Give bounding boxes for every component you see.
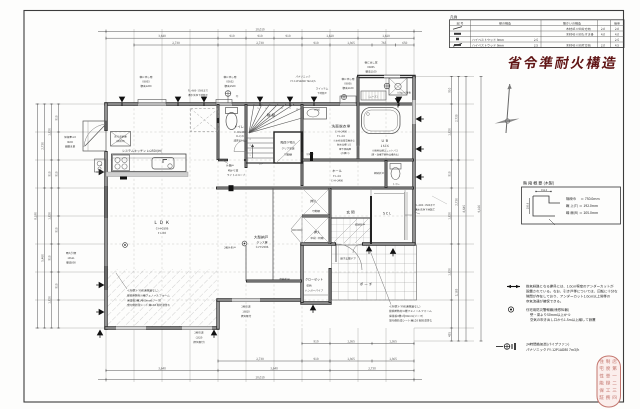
- svg-text:2枚片引戸: 2枚片引戸: [224, 246, 236, 250]
- svg-text:保温板3種1号60mm(ジーマ): 保温板3種1号60mm(ジーマ): [389, 314, 423, 318]
- svg-text:ハンガーパイプ: ハンガーパイプ: [305, 288, 324, 292]
- svg-text:910: 910: [55, 227, 59, 232]
- svg-text:度: 度: [606, 366, 611, 372]
- svg-text:910: 910: [230, 34, 235, 38]
- svg-text:階段巾 ＝ 750.0mm: 階段巾 ＝ 750.0mm: [566, 196, 600, 201]
- svg-text:2,730: 2,730: [455, 114, 459, 122]
- svg-text:(1620: (1620: [196, 335, 203, 339]
- svg-text:910: 910: [448, 171, 452, 176]
- svg-text:段差50-1/2: 段差50-1/2: [234, 139, 247, 143]
- extension lines bottom: [106, 328, 414, 382]
- svg-text:06003: 06003: [142, 80, 150, 84]
- svg-text:1,820: 1,820: [326, 34, 334, 38]
- svg-text:F L±0: F L±0: [158, 231, 167, 235]
- svg-text:腰高1100: 腰高1100: [343, 86, 355, 90]
- svg-text:1,820: 1,820: [448, 212, 452, 220]
- top dimension row 3: [134, 44, 414, 46]
- laundry window top-right: [384, 75, 400, 77]
- svg-text:910: 910: [48, 171, 52, 176]
- entrance door arcs: [336, 244, 362, 270]
- laundry vent symbol: [384, 83, 390, 89]
- svg-text:腰高1500: 腰高1500: [225, 84, 237, 88]
- toilet door arc: [234, 140, 246, 152]
- wall kitchen/toilet x=218 upper: [217, 104, 220, 160]
- svg-text:1616: 1616: [381, 144, 390, 148]
- kitchen counter gray front band: [106, 172, 188, 177]
- top wall window openings: [138, 103, 166, 106]
- left dimension col 2: [44, 104, 46, 328]
- svg-text:務: 務: [606, 395, 611, 401]
- svg-text:910: 910: [55, 115, 59, 120]
- svg-text:保温板3種1号60mm(ジーマ): 保温板3種1号60mm(ジーマ): [127, 298, 161, 302]
- washroom counter W800: [304, 108, 327, 120]
- svg-text:8,190: 8,190: [34, 212, 38, 220]
- svg-text:階 段 概 要 (木製): 階 段 概 要 (木製): [523, 181, 554, 187]
- svg-text:C-H=2506: C-H=2506: [256, 245, 269, 249]
- vent symbol above toilet: [225, 91, 231, 97]
- nando smoke detector: [242, 241, 247, 246]
- stair fan treads: [249, 104, 302, 133]
- bath door: [357, 146, 359, 158]
- SCL shelf bands: [404, 192, 406, 240]
- svg-text:FY-12P1AD80 76m3/h: FY-12P1AD80 76m3/h: [290, 79, 315, 83]
- pantry dashed void: [191, 109, 219, 132]
- legend table frame: [450, 20, 625, 48]
- back door bay left: [83, 121, 106, 151]
- svg-text:筋かいの構造: 筋かいの構造: [563, 21, 581, 25]
- wall x=302 lower (genkan/closet): [300, 244, 303, 303]
- svg-text:横に出し窓: 横に出し窓: [342, 77, 355, 81]
- kitchen counter: [112, 154, 187, 172]
- svg-text:C-H=2400: C-H=2400: [335, 129, 348, 133]
- svg-text:910: 910: [314, 357, 319, 361]
- svg-text:4.5: 4.5: [615, 43, 619, 47]
- svg-text:S C L: S C L: [383, 211, 391, 216]
- toilet2 fixture: [390, 164, 401, 170]
- svg-text:引違戸: 引違戸: [306, 152, 314, 156]
- svg-text:W800: W800: [314, 108, 321, 112]
- laundry brace marker inside: [395, 98, 402, 104]
- note3 fan symbols: [496, 346, 503, 348]
- svg-text:910: 910: [48, 255, 52, 260]
- brace markers right wall: [416, 116, 422, 123]
- svg-text:U P: U P: [259, 162, 264, 166]
- toilet bottom wall segment: [218, 159, 228, 162]
- svg-text:温水洗浄下地施工: 温水洗浄下地施工: [188, 93, 209, 97]
- exterior wall left upper: [104, 102, 107, 131]
- stair lower wall y=163: [246, 162, 274, 164]
- right dimension col 3: [465, 77, 467, 342]
- svg-text:10kg/㎡ 警告: 10kg/㎡ 警告: [397, 91, 411, 95]
- stair tread numbers: [249, 106, 299, 157]
- short bottom ruler row under porch: [302, 343, 414, 345]
- toilet bay window box: [216, 100, 232, 105]
- bottom dimension row 2: [106, 370, 414, 372]
- svg-text:FLとの: FLとの: [236, 134, 244, 138]
- exterior wall right x=414: [412, 76, 415, 245]
- svg-text:3,640: 3,640: [270, 366, 278, 370]
- red company stamp: [597, 356, 621, 407]
- vent symbol washroom: [341, 94, 346, 99]
- genkan/SCL divider x=371: [370, 196, 372, 244]
- pencil leader mark: [432, 196, 447, 204]
- window opening glass lines left wall (LDK window1): [105, 186, 107, 218]
- svg-text:910: 910: [258, 34, 263, 38]
- nando door swings: [291, 216, 302, 231]
- svg-text:910: 910: [55, 171, 59, 176]
- svg-text:親子玄関ドア: 親子玄関ドア: [340, 257, 356, 261]
- svg-text:910: 910: [55, 283, 59, 288]
- svg-text:腰高800: 腰高800: [66, 261, 76, 265]
- svg-text:≪外壁≫下地(通気層なし): ≪外壁≫下地(通気層なし): [389, 305, 420, 309]
- svg-text:ライトスコープ: ライトスコープ: [227, 173, 246, 177]
- closet south wall y=303: [300, 301, 331, 304]
- legend row2: [454, 33, 461, 35]
- svg-text:L D K: L D K: [154, 220, 169, 226]
- svg-text:3,185: 3,185: [455, 288, 459, 296]
- svg-text:FL+800~1500まで: FL+800~1500まで: [415, 203, 436, 207]
- svg-text:屋根断熱材:A種フェノールフォーム: 屋根断熱材:A種フェノールフォーム: [127, 293, 170, 297]
- svg-text:倍率: 倍率: [614, 21, 620, 25]
- svg-text:店: 店: [612, 359, 617, 365]
- wall y=188 center: [216, 187, 414, 190]
- y=300 wall window: [232, 299, 260, 302]
- left dimension col outer: [37, 104, 39, 328]
- svg-text:2.0: 2.0: [601, 43, 605, 47]
- svg-text:宅: 宅: [599, 366, 604, 372]
- wall x=246 nando left lower: [245, 246, 247, 281]
- svg-text:パナソニック FY-12P1AD80 7m3/h: パナソニック FY-12P1AD80 7m3/h: [526, 347, 579, 352]
- legend row4: [453, 43, 462, 46]
- kitchen side cabinet fixture: [95, 159, 106, 172]
- entrance south wall y=244: [300, 242, 336, 245]
- svg-text:C-H=2400: C-H=2400: [331, 178, 344, 182]
- exterior wall top main: [104, 102, 358, 105]
- back door swing: [84, 124, 106, 147]
- svg-text:910: 910: [448, 87, 452, 92]
- top dimension row total 10010: [106, 31, 414, 33]
- top dimension row 2: [106, 37, 414, 39]
- svg-text:2.5: 2.5: [534, 38, 538, 42]
- stair profile sketch: [533, 196, 560, 216]
- svg-text:階 段: 階 段: [267, 113, 276, 119]
- svg-text:2,730: 2,730: [256, 357, 264, 361]
- svg-text:換気框付): 換気框付): [193, 340, 204, 344]
- wall laundry/bath divider (y=104 right part): [358, 103, 416, 106]
- svg-text:換気框付: 換気框付: [241, 314, 252, 318]
- svg-text:F L±0: F L±0: [333, 174, 341, 178]
- svg-text:2枚引違: 2枚引違: [241, 305, 251, 309]
- right wall bath window: [412, 100, 416, 124]
- svg-text:スイッチ上: スイッチ上: [316, 87, 329, 91]
- svg-text:木材45×90片方向: 木材45×90片方向: [566, 43, 591, 47]
- svg-text:室内側防湿シート兼LD3 耐防湿含む: 室内側防湿シート兼LD3 耐防湿含む: [127, 303, 170, 307]
- exterior wall bottom LDK: [104, 326, 219, 329]
- svg-text:1,365: 1,365: [389, 357, 397, 361]
- svg-text:ホール: ホール: [332, 168, 342, 173]
- svg-text:木材45×90片方向: 木材45×90片方向: [566, 27, 591, 31]
- svg-text:パナソニック: パナソニック: [295, 75, 311, 79]
- svg-text:保温庫※0: 保温庫※0: [64, 135, 76, 139]
- svg-text:記 号: 記 号: [457, 21, 464, 25]
- svg-text:F L±0: F L±0: [337, 134, 345, 138]
- svg-text:03602: 03602: [226, 80, 234, 84]
- svg-text:1,820: 1,820: [448, 128, 452, 136]
- svg-text:2,730: 2,730: [455, 198, 459, 206]
- genkan tile floor: [332, 218, 371, 244]
- svg-text:収納折戸: 収納折戸: [355, 223, 366, 227]
- svg-text:保: 保: [599, 388, 604, 394]
- svg-text:証: 証: [599, 395, 604, 401]
- stair UP arrow: [252, 146, 254, 158]
- brace markers top wall: [119, 97, 126, 103]
- svg-text:06005: 06005: [367, 65, 375, 69]
- svg-text:1,365: 1,365: [347, 41, 355, 45]
- insulation hatched floor area: [107, 269, 218, 327]
- understair door diagonal: [276, 140, 300, 163]
- exterior wall top-right section: [357, 75, 416, 78]
- svg-text:10,010: 10,010: [255, 375, 264, 379]
- wall y=160 bath bottom: [302, 159, 414, 162]
- brace markers bottom walls: [97, 330, 104, 336]
- svg-text:押入: 押入: [310, 199, 317, 204]
- extension lines top: [106, 29, 414, 104]
- svg-text:工: 工: [606, 388, 611, 394]
- svg-text:2.0: 2.0: [615, 27, 619, 31]
- porch tile grid: [332, 245, 417, 300]
- oshiire walls x=330 upper: [329, 188, 332, 244]
- closet east wall x=330: [329, 268, 332, 303]
- svg-text:蹴 上(T) ＝ 192.0mm: 蹴 上(T) ＝ 192.0mm: [566, 203, 598, 208]
- svg-text:木材45×90たすき掛: 木材45×90たすき掛: [566, 32, 594, 36]
- svg-text:片開戸: 片開戸: [226, 164, 234, 168]
- svg-text:ハイベストウッド 9mm: ハイベストウッド 9mm: [472, 38, 504, 42]
- bottom wall window sashes: [116, 327, 146, 330]
- svg-text:可動棚: 可動棚: [312, 209, 320, 213]
- svg-text:登: 登: [606, 373, 611, 379]
- svg-text:階段下物入: 階段下物入: [280, 141, 295, 145]
- svg-text:腰高1200: 腰高1200: [141, 84, 153, 88]
- note2 smoke detector symbol: [508, 307, 513, 312]
- svg-text:U B: U B: [381, 138, 388, 143]
- svg-text:中段・枕棚: 中段・枕棚: [311, 236, 324, 240]
- svg-text:両開き扉: 両開き扉: [65, 145, 76, 149]
- stair summary box: [522, 187, 621, 224]
- svg-text:16511: 16511: [67, 256, 75, 260]
- svg-text:C-H=2506: C-H=2506: [156, 226, 169, 230]
- brace marker porch entrance: [390, 248, 397, 254]
- svg-text:455: 455: [448, 332, 452, 337]
- LDK smoke detector: [123, 243, 128, 248]
- svg-text:下地施工: 下地施工: [317, 91, 328, 95]
- svg-text:1,820: 1,820: [448, 268, 452, 276]
- svg-text:屋根断熱材:A種フェノールフォーム: 屋根断熱材:A種フェノールフォーム: [389, 309, 432, 313]
- legend row1: [453, 27, 462, 30]
- svg-text:(点検口): (点検口): [341, 151, 350, 155]
- svg-text:壁の構造: 壁の構造: [499, 21, 511, 25]
- right dimension col 1: [451, 77, 453, 342]
- bathtub: [362, 108, 401, 134]
- svg-text:腰高1100: 腰高1100: [366, 70, 378, 74]
- svg-text:2枚引違: 2枚引違: [194, 331, 204, 335]
- svg-text:1,820: 1,820: [382, 34, 390, 38]
- svg-text:トイレ: トイレ: [234, 124, 244, 129]
- svg-text:踏 面(R) ＝ 205.0mm: 踏 面(R) ＝ 205.0mm: [566, 210, 598, 215]
- svg-text:910: 910: [314, 339, 319, 343]
- extension lines left: [35, 104, 106, 328]
- sink: [152, 158, 174, 170]
- washroom pocket door black: [310, 152, 313, 161]
- agarikamachi step line: [332, 217, 371, 219]
- bottom dimension row 1: [218, 360, 414, 362]
- bottom dimension row total: [106, 379, 414, 381]
- svg-text:玄 関: 玄 関: [346, 210, 355, 216]
- stair straight treads: [246, 138, 274, 158]
- svg-text:制: 制: [606, 359, 611, 365]
- wall toilet/stair x=246: [245, 104, 248, 168]
- svg-text:温水洗浄下地施工: 温水洗浄下地施工: [415, 208, 436, 212]
- svg-text:1,365: 1,365: [347, 339, 355, 343]
- svg-text:2.0: 2.0: [601, 27, 605, 31]
- svg-text:3,640: 3,640: [158, 366, 166, 370]
- svg-text:24時間換気扇(パイプファン): 24時間換気扇(パイプファン): [526, 342, 569, 347]
- svg-text:横に出し窓: 横に出し窓: [365, 61, 378, 65]
- wall nando/closet x=274 thin: [272, 188, 274, 281]
- svg-text:2,730: 2,730: [368, 366, 376, 370]
- svg-text:1,820: 1,820: [48, 212, 52, 220]
- svg-text:FL+800~1500まで: FL+800~1500まで: [188, 89, 209, 93]
- svg-text:録: 録: [606, 381, 611, 387]
- door black leaf at nando top: [229, 185, 234, 191]
- svg-text:能: 能: [599, 381, 604, 387]
- svg-text:二: 二: [612, 381, 617, 387]
- svg-text:1,365: 1,365: [347, 357, 355, 361]
- svg-text:0603: 0603: [67, 140, 73, 144]
- right dimension outer col x=481: [480, 77, 482, 342]
- svg-text:2,730: 2,730: [41, 142, 45, 150]
- stove: [113, 155, 130, 171]
- genkan floor diagonals: [333, 218, 358, 243]
- svg-text:1,365: 1,365: [389, 339, 397, 343]
- svg-text:両大引窓: 両大引窓: [66, 251, 77, 255]
- svg-text:性: 性: [599, 373, 604, 379]
- svg-text:8,645: 8,645: [462, 205, 466, 213]
- extension lines right: [414, 77, 474, 342]
- svg-text:タンス置: タンス置: [256, 240, 267, 244]
- svg-text:横に出し窓: 横に出し窓: [140, 75, 153, 79]
- wall washroom/bath x=358: [357, 77, 360, 161]
- svg-text:2,730: 2,730: [256, 41, 264, 45]
- toilet fixture: [226, 113, 237, 130]
- svg-text:空気流通が確保できる。: 空気流通が確保できる。: [526, 299, 563, 304]
- wall stair/washroom x=302 upper: [301, 104, 304, 186]
- svg-text:システムキッチン L=2550(IH): システムキッチン L=2550(IH): [122, 149, 162, 153]
- svg-text:(点検口): (点検口): [116, 139, 125, 143]
- svg-text:16020: 16020: [242, 309, 250, 313]
- svg-text:≪外壁≫下地(通気層なし): ≪外壁≫下地(通気層なし): [127, 289, 158, 293]
- svg-text:5,460: 5,460: [41, 254, 45, 262]
- hall/toilet2 wall x=386: [385, 160, 388, 188]
- svg-text:4.0: 4.0: [615, 32, 619, 36]
- kitchen bay window box: [138, 100, 166, 105]
- north compass star: [506, 84, 510, 133]
- svg-text:2.5: 2.5: [534, 43, 538, 47]
- washroom bay window box: [340, 96, 356, 104]
- black door bar kitchen: [120, 177, 127, 180]
- svg-text:192.0: 192.0: [541, 188, 548, 192]
- svg-text:3,640: 3,640: [158, 34, 166, 38]
- svg-text:1,820: 1,820: [48, 296, 52, 304]
- svg-text:空気の吹き出し口から1.5m以上離して設置: 空気の吹き出し口から1.5m以上離して設置: [530, 317, 596, 322]
- nando south wall y=281: [246, 280, 302, 283]
- exterior wall left mid: [104, 151, 107, 330]
- svg-text:室内側防湿シート兼LD3 耐防湿含む: 室内側防湿シート兼LD3 耐防湿含む: [389, 319, 432, 323]
- svg-text:[ニーズ]: [ニーズ]: [369, 95, 378, 99]
- svg-text:205.0: 205.0: [526, 202, 530, 209]
- svg-text:(床・浴槽下断熱仕様含む): (床・浴槽下断熱仕様含む): [371, 153, 399, 157]
- module grid dashed lines: [106, 104, 414, 328]
- note1 undercut arrow symbol: [507, 286, 520, 288]
- svg-text:910: 910: [314, 41, 319, 45]
- oshiire divider y=216: [302, 215, 330, 218]
- window opening left wall lower: [105, 266, 107, 290]
- floor hatch access: [111, 132, 131, 147]
- step wall x=218: [216, 300, 219, 330]
- svg-text:2.5: 2.5: [615, 38, 619, 42]
- svg-text:910: 910: [286, 34, 291, 38]
- SCL shelves: [404, 190, 406, 240]
- small mark at pantry: [217, 118, 220, 123]
- brace markers left wall: [99, 169, 105, 176]
- laundry pan: [389, 78, 407, 95]
- svg-text:650: 650: [402, 41, 407, 45]
- svg-text:トイレ: トイレ: [392, 182, 400, 186]
- svg-text:四: 四: [612, 395, 617, 401]
- understair storage box: [274, 132, 302, 163]
- svg-text:ポ ー チ: ポ ー チ: [360, 282, 373, 288]
- svg-text:収納折戸: 収納折戸: [374, 171, 385, 175]
- svg-text:第: 第: [612, 366, 617, 372]
- svg-text:収納: 収納: [306, 284, 312, 288]
- svg-text:1,820: 1,820: [48, 128, 52, 136]
- svg-text:明かり窓: 明かり窓: [228, 168, 239, 172]
- svg-text:可動棚: 可動棚: [284, 153, 292, 157]
- svg-text:C-H=2400: C-H=2400: [234, 130, 246, 134]
- left dimension col 4 ticks: [58, 104, 60, 328]
- main title 省令準耐火構造: [507, 56, 617, 69]
- svg-text:収納折戸: 収納折戸: [279, 277, 290, 281]
- svg-text:三: 三: [612, 388, 617, 394]
- laundry counter: [361, 91, 386, 100]
- svg-text:4.0: 4.0: [601, 32, 605, 36]
- svg-text:住: 住: [599, 359, 604, 365]
- step wall y=300: [216, 298, 302, 301]
- svg-text:9,100: 9,100: [477, 205, 481, 213]
- closet hanger pipe: [304, 294, 328, 296]
- left dimension col 3: [51, 104, 53, 328]
- svg-text:一: 一: [612, 373, 617, 379]
- ruler overshoots: [98, 379, 106, 381]
- svg-text:06005: 06005: [344, 82, 352, 86]
- svg-text:ハイベストウッド 9mm: ハイベストウッド 9mm: [472, 43, 504, 47]
- svg-text:クローゼット: クローゼット: [305, 278, 323, 282]
- svg-text:2,730: 2,730: [172, 41, 180, 45]
- svg-text:10,010: 10,010: [255, 27, 264, 31]
- svg-text:765: 765: [381, 41, 386, 45]
- legend row3: [456, 38, 459, 40]
- right dimension col 2: [458, 77, 460, 342]
- svg-text:横に出し窓: 横に出し窓: [224, 75, 237, 79]
